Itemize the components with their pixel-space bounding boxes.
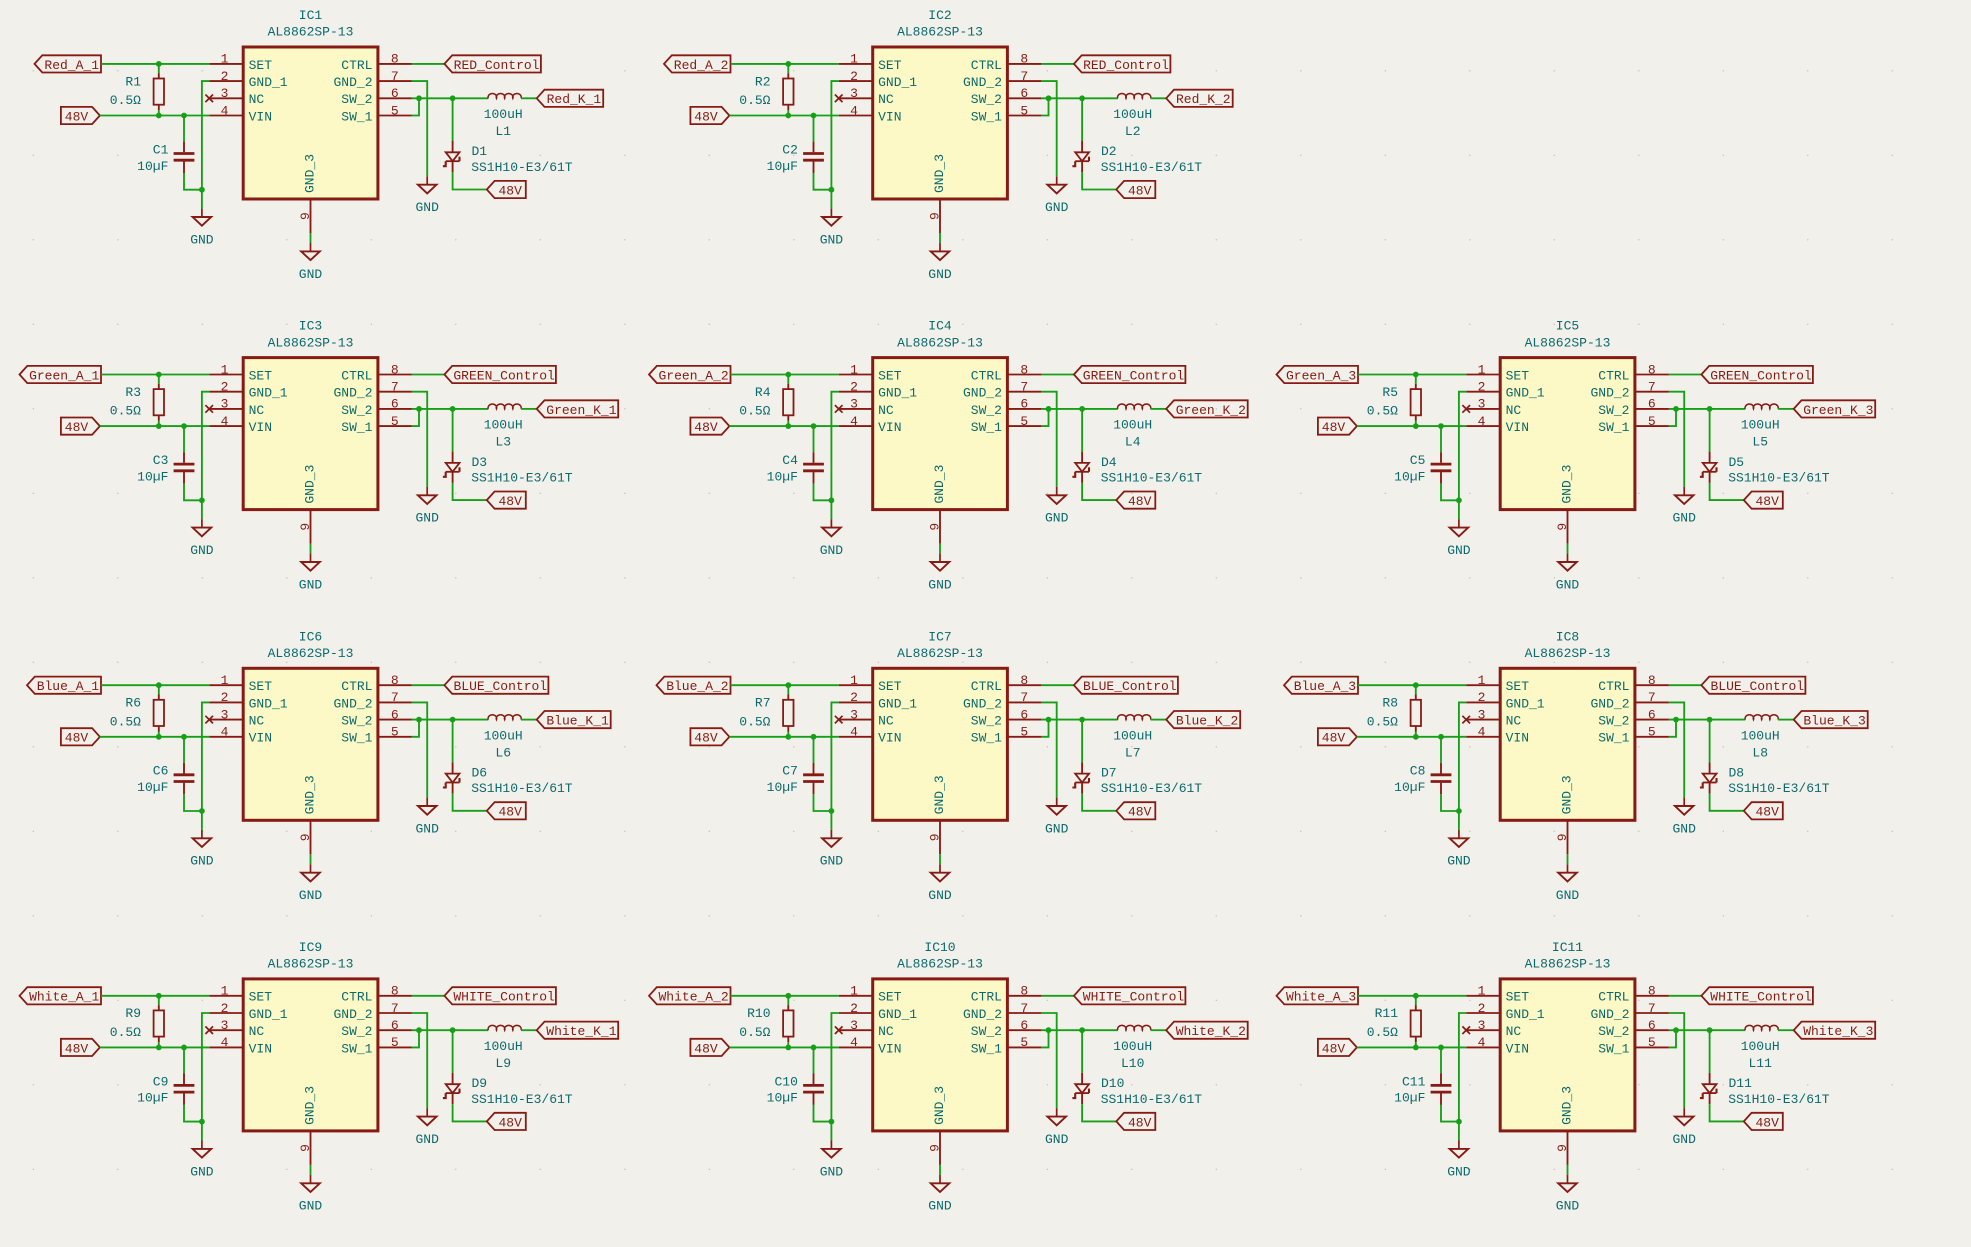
svg-text:AL8862SP-13: AL8862SP-13: [1525, 957, 1611, 972]
svg-text:VIN: VIN: [878, 420, 901, 435]
svg-text:9: 9: [1555, 833, 1570, 841]
svg-text:GND_3: GND_3: [1560, 775, 1575, 814]
svg-text:GND_2: GND_2: [1590, 1007, 1629, 1022]
svg-text:3: 3: [850, 1018, 858, 1033]
svg-text:C1: C1: [153, 142, 169, 157]
svg-text:L3: L3: [495, 435, 511, 450]
svg-text:6: 6: [1648, 397, 1656, 412]
svg-text:SW_1: SW_1: [971, 1041, 1002, 1056]
svg-text:L5: L5: [1752, 435, 1768, 450]
svg-text:D1: D1: [472, 144, 488, 159]
svg-text:VIN: VIN: [1506, 731, 1529, 746]
svg-text:GND_2: GND_2: [963, 75, 1002, 90]
svg-text:3: 3: [221, 86, 229, 101]
svg-text:R11: R11: [1375, 1006, 1399, 1021]
svg-text:R10: R10: [747, 1006, 770, 1021]
svg-text:BLUE_Control: BLUE_Control: [1710, 679, 1804, 694]
svg-text:0.5Ω: 0.5Ω: [110, 93, 141, 108]
svg-text:L9: L9: [495, 1056, 511, 1071]
svg-text:CTRL: CTRL: [1598, 990, 1629, 1005]
svg-text:8: 8: [1648, 362, 1656, 377]
svg-text:1: 1: [221, 362, 229, 377]
svg-text:5: 5: [391, 414, 399, 429]
svg-text:10µF: 10µF: [1394, 780, 1425, 795]
svg-text:SET: SET: [878, 679, 902, 694]
svg-text:VIN: VIN: [249, 109, 272, 124]
svg-text:GND: GND: [820, 854, 844, 869]
svg-text:SS1H10-E3/61T: SS1H10-E3/61T: [1728, 471, 1830, 486]
svg-text:RED_Control: RED_Control: [454, 58, 540, 73]
svg-text:SET: SET: [249, 368, 273, 383]
svg-text:10µF: 10µF: [767, 780, 798, 795]
svg-text:8: 8: [1020, 52, 1028, 67]
svg-text:IC6: IC6: [299, 629, 322, 644]
svg-text:1: 1: [221, 673, 229, 688]
svg-text:2: 2: [221, 380, 229, 395]
svg-text:SS1H10-E3/61T: SS1H10-E3/61T: [471, 1092, 573, 1107]
svg-text:SW_1: SW_1: [341, 109, 372, 124]
svg-text:8: 8: [391, 52, 399, 67]
svg-text:0.5Ω: 0.5Ω: [110, 1025, 141, 1040]
svg-text:5: 5: [1020, 725, 1028, 740]
svg-text:NC: NC: [249, 714, 265, 729]
svg-text:0.5Ω: 0.5Ω: [739, 1025, 770, 1040]
svg-text:RED_Control: RED_Control: [1083, 58, 1169, 73]
svg-text:5: 5: [391, 725, 399, 740]
svg-text:White_K_3: White_K_3: [1803, 1024, 1873, 1039]
svg-text:GND: GND: [1672, 511, 1696, 526]
svg-text:GND: GND: [1447, 854, 1471, 869]
svg-text:10µF: 10µF: [137, 469, 168, 484]
svg-text:IC10: IC10: [924, 940, 955, 955]
svg-text:AL8862SP-13: AL8862SP-13: [897, 25, 983, 40]
svg-text:10µF: 10µF: [137, 1091, 168, 1106]
svg-text:GND_2: GND_2: [963, 386, 1002, 401]
svg-text:R6: R6: [125, 696, 141, 711]
svg-text:White_K_1: White_K_1: [546, 1024, 616, 1039]
svg-text:C9: C9: [153, 1074, 169, 1089]
svg-text:6: 6: [391, 86, 399, 101]
svg-text:GREEN_Control: GREEN_Control: [1083, 368, 1185, 383]
svg-text:7: 7: [1020, 380, 1028, 395]
svg-text:48V: 48V: [694, 731, 718, 746]
svg-text:7: 7: [391, 380, 399, 395]
svg-text:GND_1: GND_1: [1506, 696, 1545, 711]
svg-text:GND: GND: [1556, 1199, 1580, 1214]
svg-text:NC: NC: [249, 403, 265, 418]
svg-text:SW_1: SW_1: [1598, 1041, 1629, 1056]
svg-text:Blue_K_2: Blue_K_2: [1176, 714, 1238, 729]
svg-text:9: 9: [298, 212, 313, 220]
svg-text:2: 2: [850, 69, 858, 84]
svg-text:10µF: 10µF: [1394, 469, 1425, 484]
svg-text:SW_1: SW_1: [341, 731, 372, 746]
svg-text:NC: NC: [1506, 714, 1522, 729]
svg-text:GND_1: GND_1: [249, 696, 288, 711]
svg-text:8: 8: [391, 984, 399, 999]
svg-text:White_A_1: White_A_1: [29, 990, 99, 1005]
svg-text:D9: D9: [472, 1076, 488, 1091]
svg-text:10µF: 10µF: [767, 159, 798, 174]
svg-text:SS1H10-E3/61T: SS1H10-E3/61T: [471, 471, 573, 486]
svg-text:48V: 48V: [498, 183, 522, 198]
svg-text:IC1: IC1: [299, 8, 323, 23]
svg-text:9: 9: [927, 523, 942, 531]
svg-text:48V: 48V: [1322, 1041, 1346, 1056]
svg-text:100uH: 100uH: [1741, 418, 1780, 433]
svg-text:48V: 48V: [694, 420, 718, 435]
svg-text:2: 2: [221, 1001, 229, 1016]
svg-text:100uH: 100uH: [484, 728, 523, 743]
svg-text:GND: GND: [928, 888, 952, 903]
svg-text:4: 4: [221, 1035, 229, 1050]
svg-text:L4: L4: [1125, 435, 1141, 450]
svg-text:48V: 48V: [1755, 1115, 1779, 1130]
svg-text:AL8862SP-13: AL8862SP-13: [897, 646, 983, 661]
svg-text:Blue_K_3: Blue_K_3: [1803, 714, 1865, 729]
svg-text:2: 2: [1478, 690, 1486, 705]
svg-text:C10: C10: [774, 1074, 797, 1089]
svg-text:4: 4: [850, 1035, 858, 1050]
svg-text:GND: GND: [190, 232, 214, 247]
svg-text:SW_1: SW_1: [971, 420, 1002, 435]
svg-text:GREEN_Control: GREEN_Control: [453, 368, 555, 383]
svg-text:VIN: VIN: [249, 1041, 272, 1056]
svg-text:R4: R4: [755, 385, 771, 400]
svg-text:VIN: VIN: [878, 1041, 901, 1056]
svg-text:2: 2: [221, 690, 229, 705]
svg-text:GND: GND: [1672, 1132, 1696, 1147]
svg-text:7: 7: [1648, 380, 1656, 395]
svg-text:R1: R1: [125, 74, 141, 89]
svg-text:IC5: IC5: [1556, 319, 1579, 334]
svg-text:10µF: 10µF: [767, 1091, 798, 1106]
svg-text:8: 8: [391, 673, 399, 688]
svg-text:D4: D4: [1101, 455, 1117, 470]
svg-text:IC4: IC4: [928, 319, 952, 334]
svg-text:GND: GND: [928, 1199, 952, 1214]
svg-text:L6: L6: [495, 745, 511, 760]
svg-text:GND: GND: [1045, 1132, 1069, 1147]
svg-text:48V: 48V: [694, 1041, 718, 1056]
svg-text:C3: C3: [153, 453, 169, 468]
svg-text:Green_K_3: Green_K_3: [1803, 403, 1873, 418]
svg-text:GND_1: GND_1: [249, 75, 288, 90]
svg-text:SW_1: SW_1: [341, 1041, 372, 1056]
svg-text:4: 4: [850, 414, 858, 429]
svg-text:48V: 48V: [1128, 1115, 1152, 1130]
svg-text:SS1H10-E3/61T: SS1H10-E3/61T: [1101, 160, 1203, 175]
svg-text:GND_3: GND_3: [932, 465, 947, 504]
svg-text:100uH: 100uH: [1113, 1039, 1152, 1054]
svg-text:6: 6: [391, 707, 399, 722]
svg-text:48V: 48V: [1128, 805, 1152, 820]
svg-text:1: 1: [850, 984, 858, 999]
svg-text:SW_2: SW_2: [341, 92, 372, 107]
svg-text:GND: GND: [1556, 888, 1580, 903]
svg-text:SW_1: SW_1: [1598, 420, 1629, 435]
svg-text:0.5Ω: 0.5Ω: [739, 714, 770, 729]
svg-text:5: 5: [1020, 103, 1028, 118]
svg-text:SW_2: SW_2: [971, 92, 1002, 107]
svg-text:48V: 48V: [65, 420, 89, 435]
svg-text:0.5Ω: 0.5Ω: [1367, 714, 1398, 729]
svg-text:NC: NC: [249, 92, 265, 107]
svg-text:GND_2: GND_2: [1590, 386, 1629, 401]
svg-text:GND_1: GND_1: [878, 386, 917, 401]
svg-text:GND: GND: [1447, 543, 1471, 558]
svg-text:1: 1: [850, 52, 858, 67]
svg-text:WHITE_Control: WHITE_Control: [1083, 990, 1185, 1005]
svg-text:3: 3: [850, 707, 858, 722]
svg-text:GND_2: GND_2: [963, 1007, 1002, 1022]
svg-text:SS1H10-E3/61T: SS1H10-E3/61T: [1101, 471, 1203, 486]
svg-text:SET: SET: [249, 679, 273, 694]
svg-text:8: 8: [1020, 362, 1028, 377]
svg-text:GND: GND: [299, 888, 323, 903]
svg-text:5: 5: [1648, 414, 1656, 429]
svg-text:1: 1: [221, 52, 229, 67]
svg-text:SET: SET: [878, 368, 902, 383]
svg-text:Blue_K_1: Blue_K_1: [546, 714, 609, 729]
svg-text:GND_2: GND_2: [333, 696, 372, 711]
svg-text:5: 5: [1020, 414, 1028, 429]
svg-text:SW_1: SW_1: [341, 420, 372, 435]
svg-text:100uH: 100uH: [1741, 728, 1780, 743]
svg-text:WHITE_Control: WHITE_Control: [1710, 990, 1812, 1005]
svg-text:D2: D2: [1101, 144, 1117, 159]
svg-text:GND: GND: [190, 854, 214, 869]
svg-text:0.5Ω: 0.5Ω: [739, 93, 770, 108]
svg-text:9: 9: [927, 1144, 942, 1152]
svg-text:SW_2: SW_2: [341, 1024, 372, 1039]
svg-text:5: 5: [1648, 725, 1656, 740]
svg-text:GND: GND: [1447, 1164, 1471, 1179]
svg-text:WHITE_Control: WHITE_Control: [453, 990, 555, 1005]
svg-text:SET: SET: [878, 990, 902, 1005]
svg-text:SET: SET: [1506, 368, 1530, 383]
svg-text:GND_3: GND_3: [1560, 465, 1575, 504]
svg-text:8: 8: [1020, 984, 1028, 999]
svg-text:Green_K_1: Green_K_1: [546, 403, 616, 418]
svg-text:1: 1: [850, 673, 858, 688]
svg-text:CTRL: CTRL: [971, 368, 1002, 383]
svg-text:D11: D11: [1729, 1076, 1753, 1091]
svg-text:CTRL: CTRL: [971, 58, 1002, 73]
svg-text:GND_1: GND_1: [878, 1007, 917, 1022]
svg-text:GND: GND: [928, 267, 952, 282]
svg-text:4: 4: [221, 103, 229, 118]
svg-text:4: 4: [221, 414, 229, 429]
svg-text:8: 8: [1648, 984, 1656, 999]
svg-text:48V: 48V: [498, 494, 522, 509]
svg-text:3: 3: [1478, 397, 1486, 412]
svg-text:7: 7: [1648, 1001, 1656, 1016]
svg-text:SW_1: SW_1: [971, 731, 1002, 746]
svg-text:BLUE_Control: BLUE_Control: [453, 679, 547, 694]
svg-text:D10: D10: [1101, 1076, 1124, 1091]
svg-text:8: 8: [1648, 673, 1656, 688]
svg-text:CTRL: CTRL: [341, 58, 372, 73]
svg-text:3: 3: [1478, 1018, 1486, 1033]
svg-text:GND: GND: [299, 577, 323, 592]
svg-text:2: 2: [1478, 380, 1486, 395]
svg-text:C7: C7: [782, 764, 798, 779]
svg-text:SW_2: SW_2: [341, 403, 372, 418]
svg-text:L11: L11: [1748, 1056, 1772, 1071]
svg-text:48V: 48V: [498, 1115, 522, 1130]
svg-text:VIN: VIN: [878, 731, 901, 746]
svg-text:1: 1: [1478, 984, 1486, 999]
svg-text:GND: GND: [190, 543, 214, 558]
svg-text:48V: 48V: [65, 731, 89, 746]
svg-text:7: 7: [391, 1001, 399, 1016]
svg-text:SW_2: SW_2: [341, 714, 372, 729]
svg-text:SS1H10-E3/61T: SS1H10-E3/61T: [1101, 781, 1203, 796]
svg-text:SET: SET: [249, 58, 273, 73]
svg-text:NC: NC: [878, 92, 894, 107]
svg-text:9: 9: [1555, 1144, 1570, 1152]
svg-text:2: 2: [850, 380, 858, 395]
svg-text:3: 3: [221, 707, 229, 722]
svg-text:2: 2: [850, 1001, 858, 1016]
svg-text:6: 6: [391, 1018, 399, 1033]
svg-text:GND_3: GND_3: [932, 775, 947, 814]
svg-text:1: 1: [1478, 673, 1486, 688]
svg-text:3: 3: [850, 397, 858, 412]
svg-text:5: 5: [391, 103, 399, 118]
svg-text:VIN: VIN: [878, 109, 901, 124]
svg-text:NC: NC: [249, 1024, 265, 1039]
svg-text:CTRL: CTRL: [341, 368, 372, 383]
svg-text:6: 6: [1020, 707, 1028, 722]
svg-text:Red_K_2: Red_K_2: [1176, 92, 1231, 107]
svg-text:6: 6: [1020, 397, 1028, 412]
svg-text:7: 7: [1020, 1001, 1028, 1016]
svg-text:VIN: VIN: [249, 420, 272, 435]
svg-text:AL8862SP-13: AL8862SP-13: [268, 335, 354, 350]
svg-text:2: 2: [850, 690, 858, 705]
svg-text:Red_A_2: Red_A_2: [674, 58, 729, 73]
svg-text:Blue_A_1: Blue_A_1: [37, 679, 100, 694]
svg-text:SW_1: SW_1: [971, 109, 1002, 124]
svg-text:10µF: 10µF: [1394, 1091, 1425, 1106]
svg-text:GND_3: GND_3: [303, 1086, 318, 1125]
svg-text:9: 9: [927, 833, 942, 841]
svg-text:SET: SET: [249, 990, 273, 1005]
svg-text:AL8862SP-13: AL8862SP-13: [1525, 335, 1611, 350]
svg-text:SW_2: SW_2: [1598, 403, 1629, 418]
svg-text:R9: R9: [125, 1006, 141, 1021]
svg-text:CTRL: CTRL: [341, 990, 372, 1005]
svg-text:7: 7: [1020, 69, 1028, 84]
svg-text:C2: C2: [782, 142, 798, 157]
svg-text:5: 5: [391, 1035, 399, 1050]
svg-text:AL8862SP-13: AL8862SP-13: [268, 25, 354, 40]
svg-text:GND_2: GND_2: [1590, 696, 1629, 711]
svg-text:100uH: 100uH: [1113, 418, 1152, 433]
svg-text:NC: NC: [878, 714, 894, 729]
svg-text:White_A_3: White_A_3: [1286, 990, 1356, 1005]
svg-text:Green_A_1: Green_A_1: [29, 368, 99, 383]
svg-text:10µF: 10µF: [137, 780, 168, 795]
svg-text:0.5Ω: 0.5Ω: [110, 714, 141, 729]
svg-text:0.5Ω: 0.5Ω: [739, 404, 770, 419]
svg-text:SW_2: SW_2: [971, 714, 1002, 729]
svg-text:IC8: IC8: [1556, 629, 1579, 644]
svg-text:0.5Ω: 0.5Ω: [1367, 404, 1398, 419]
svg-text:4: 4: [1478, 1035, 1486, 1050]
svg-text:GND: GND: [1556, 577, 1580, 592]
svg-text:IC7: IC7: [928, 629, 951, 644]
svg-text:6: 6: [1648, 707, 1656, 722]
svg-text:48V: 48V: [1128, 183, 1152, 198]
svg-text:Green_A_3: Green_A_3: [1286, 368, 1356, 383]
svg-text:8: 8: [391, 362, 399, 377]
svg-text:CTRL: CTRL: [971, 679, 1002, 694]
svg-text:2: 2: [221, 69, 229, 84]
svg-text:NC: NC: [878, 1024, 894, 1039]
svg-text:SS1H10-E3/61T: SS1H10-E3/61T: [1728, 781, 1830, 796]
svg-text:GND: GND: [1045, 511, 1069, 526]
svg-text:GND_1: GND_1: [249, 386, 288, 401]
svg-text:48V: 48V: [694, 109, 718, 124]
svg-text:48V: 48V: [65, 109, 89, 124]
svg-text:7: 7: [1020, 690, 1028, 705]
svg-text:1: 1: [1478, 362, 1486, 377]
svg-text:GND_1: GND_1: [878, 75, 917, 90]
svg-text:CTRL: CTRL: [1598, 679, 1629, 694]
svg-text:GND: GND: [820, 1164, 844, 1179]
svg-text:AL8862SP-13: AL8862SP-13: [268, 957, 354, 972]
svg-text:R3: R3: [125, 385, 141, 400]
svg-text:4: 4: [850, 103, 858, 118]
svg-text:IC9: IC9: [299, 940, 322, 955]
svg-text:9: 9: [298, 523, 313, 531]
svg-text:BLUE_Control: BLUE_Control: [1083, 679, 1177, 694]
svg-text:GND: GND: [820, 543, 844, 558]
svg-text:Green_K_2: Green_K_2: [1176, 403, 1246, 418]
svg-text:IC3: IC3: [299, 319, 322, 334]
svg-text:3: 3: [221, 397, 229, 412]
svg-text:GND_3: GND_3: [303, 154, 318, 193]
svg-text:GND: GND: [415, 821, 439, 836]
svg-text:2: 2: [1478, 1001, 1486, 1016]
svg-text:100uH: 100uH: [1113, 107, 1152, 122]
svg-text:7: 7: [391, 690, 399, 705]
svg-text:100uH: 100uH: [484, 418, 523, 433]
svg-text:GND_3: GND_3: [932, 1086, 947, 1125]
svg-text:GND_2: GND_2: [333, 1007, 372, 1022]
svg-text:7: 7: [1648, 690, 1656, 705]
svg-text:3: 3: [221, 1018, 229, 1033]
svg-text:GND_3: GND_3: [1560, 1086, 1575, 1125]
svg-text:6: 6: [1020, 1018, 1028, 1033]
svg-text:SS1H10-E3/61T: SS1H10-E3/61T: [1728, 1092, 1830, 1107]
svg-text:C8: C8: [1410, 764, 1426, 779]
svg-text:9: 9: [927, 212, 942, 220]
svg-text:GND: GND: [928, 577, 952, 592]
svg-text:GND: GND: [1045, 821, 1069, 836]
svg-text:48V: 48V: [1322, 731, 1346, 746]
svg-text:48V: 48V: [498, 805, 522, 820]
svg-text:C11: C11: [1402, 1074, 1426, 1089]
svg-text:C5: C5: [1410, 453, 1426, 468]
svg-text:100uH: 100uH: [484, 1039, 523, 1054]
svg-text:IC2: IC2: [928, 8, 951, 23]
svg-text:IC11: IC11: [1552, 940, 1583, 955]
svg-text:R7: R7: [755, 696, 771, 711]
